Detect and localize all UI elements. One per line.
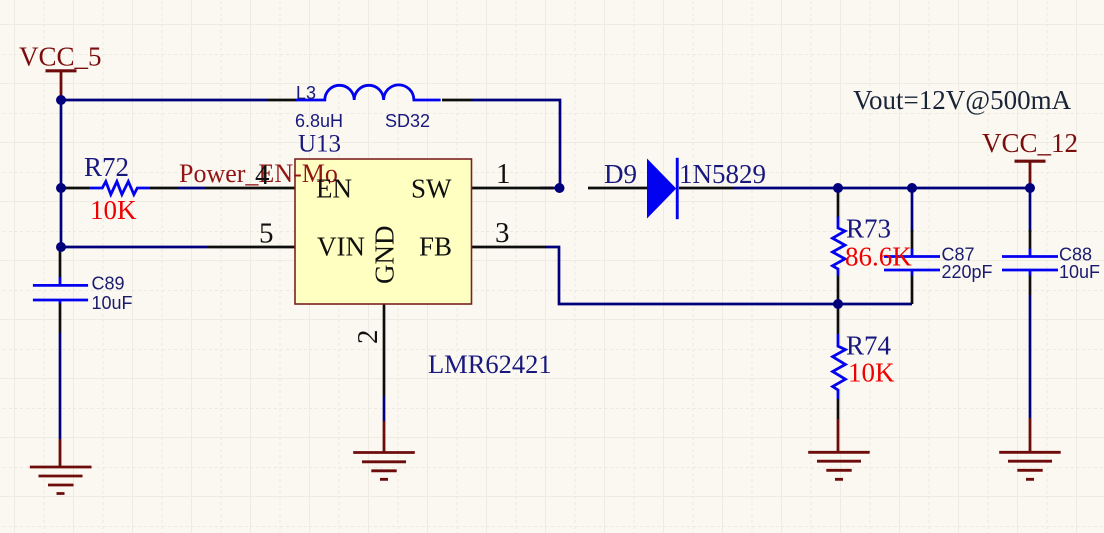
svg-text:D9: D9 (604, 159, 637, 189)
svg-text:220pF: 220pF (942, 262, 993, 282)
svg-text:10K: 10K (90, 195, 137, 225)
svg-text:LMR62421: LMR62421 (428, 349, 552, 379)
svg-text:R74: R74 (846, 331, 892, 361)
svg-text:SD32: SD32 (385, 111, 430, 131)
svg-text:1N5829: 1N5829 (679, 159, 766, 189)
svg-text:1: 1 (496, 158, 511, 190)
svg-text:86.6K: 86.6K (845, 242, 912, 272)
svg-text:3: 3 (495, 217, 510, 249)
svg-text:SW: SW (411, 174, 452, 204)
svg-text:6.8uH: 6.8uH (295, 111, 343, 131)
svg-text:VIN: VIN (317, 232, 365, 262)
svg-text:VCC_12: VCC_12 (982, 128, 1078, 158)
svg-text:VCC_5: VCC_5 (19, 42, 102, 72)
svg-text:C89: C89 (92, 274, 125, 294)
svg-text:L3: L3 (296, 83, 316, 103)
svg-text:Vout=12V@500mA: Vout=12V@500mA (853, 85, 1072, 115)
svg-text:10uF: 10uF (92, 293, 133, 313)
svg-text:5: 5 (259, 218, 274, 250)
svg-text:EN: EN (316, 174, 352, 204)
svg-text:GND: GND (370, 226, 400, 285)
svg-text:R72: R72 (84, 152, 129, 182)
svg-text:4: 4 (255, 159, 270, 191)
svg-text:U13: U13 (298, 131, 341, 158)
svg-text:R73: R73 (846, 214, 891, 244)
svg-text:10K: 10K (848, 358, 895, 388)
svg-text:10uF: 10uF (1059, 262, 1100, 282)
svg-text:2: 2 (352, 330, 384, 345)
svg-text:FB: FB (419, 232, 452, 262)
